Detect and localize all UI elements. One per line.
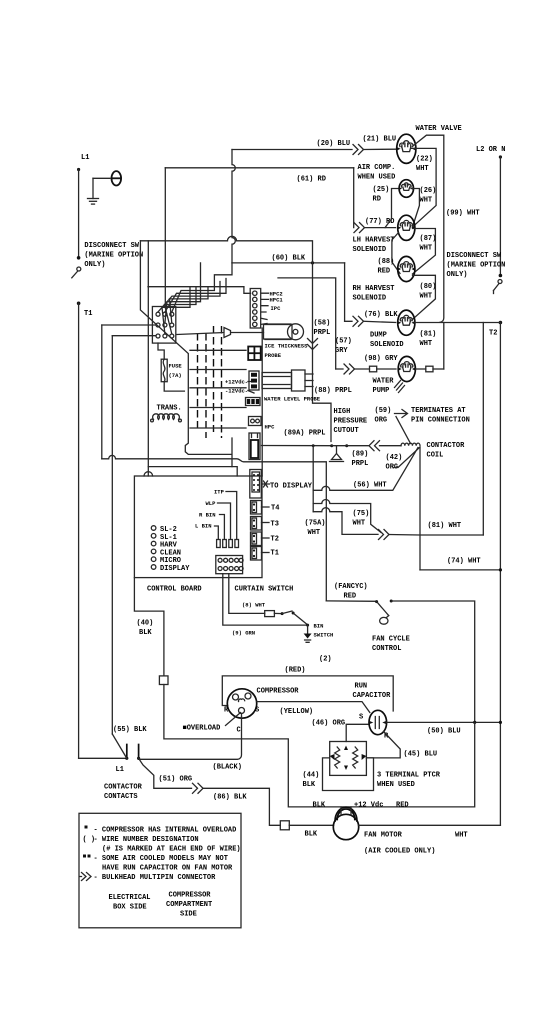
svg-text:- BULKHEAD MULTIPIN CONNECTOR: - BULKHEAD MULTIPIN CONNECTOR [94,874,217,882]
svg-text:WHT: WHT [420,197,433,205]
svg-text:WHT: WHT [420,340,433,348]
svg-text:L BIN: L BIN [195,523,212,530]
svg-text:(YELLOW): (YELLOW) [280,708,314,716]
svg-text:(MARINE OPTION: (MARINE OPTION [447,262,506,270]
svg-text:(80): (80) [420,283,437,291]
water level probe connector [249,371,259,390]
svg-text:L1: L1 [116,766,124,774]
svg-text:(8) WHT: (8) WHT [242,602,266,609]
svg-text:(9) GRN: (9) GRN [232,630,255,637]
bulkhead connector chevron (20)/(21) [353,145,364,155]
T2 connector [251,532,262,546]
svg-text:PRPL: PRPL [314,329,331,337]
legend box [79,813,241,928]
svg-text:WATER VALVE: WATER VALVE [416,125,462,133]
svg-text:WHEN USED: WHEN USED [377,781,415,789]
svg-text:WATER LEVEL PROBE: WATER LEVEL PROBE [264,396,321,403]
LED MICRO [151,557,156,562]
fan cycle control switch [375,600,378,603]
svg-text:SL-2: SL-2 [160,526,177,534]
svg-text:WHT: WHT [420,245,433,253]
svg-text:(# IS MARKED AT EACH END OF WI: (# IS MARKED AT EACH END OF WIRE) [102,846,241,854]
wire cutout to coil with chevron [347,441,401,451]
wire +12 Vdc fan motor leads [341,807,351,815]
LED HARV [151,541,156,546]
svg-text:COIL: COIL [427,452,444,460]
svg-text:CAPACITOR: CAPACITOR [353,692,392,700]
svg-text:(46) ORG: (46) ORG [312,720,346,728]
svg-text:(86) BLK: (86) BLK [213,794,247,802]
svg-text:(99) WHT: (99) WHT [446,210,480,218]
svg-text:(21) BLU: (21) BLU [363,136,397,144]
T1 connector [251,547,262,561]
svg-text:(88) PRPL: (88) PRPL [314,387,352,395]
svg-text:ONLY): ONLY) [84,261,105,269]
LED SL-2 [151,526,156,531]
rung wires across dashes [190,350,246,428]
box step to HPC strip [244,287,251,294]
water pump hatch marks [395,381,405,393]
svg-text:T2: T2 [489,330,497,338]
svg-text:- COMPRESSOR HAS INTERNAL OVER: - COMPRESSOR HAS INTERNAL OVERLOAD [94,827,237,835]
2x2 grid connector [248,347,261,361]
svg-text:(89): (89) [352,451,369,459]
svg-text:(50) BLU: (50) BLU [427,728,461,736]
svg-text:SL-1: SL-1 [160,534,177,542]
svg-text:WHT: WHT [420,293,433,301]
svg-text:(25): (25) [373,186,390,194]
svg-text:SIDE: SIDE [180,911,197,919]
svg-text:(42): (42) [386,454,403,462]
bin switch ground [307,625,309,633]
svg-text:DISCONNECT SW: DISCONNECT SW [447,252,502,260]
PTCR [330,742,367,776]
svg-text:(75): (75) [353,510,370,518]
svg-text:BLK: BLK [313,802,326,810]
svg-text:CURTAIN SWITCH: CURTAIN SWITCH [235,586,294,594]
wire vertical from (20)BLU down with hops [232,150,235,263]
4 small pin rects [217,540,221,548]
wire coil vertical [419,448,421,570]
svg-text:PIN CONNECTION: PIN CONNECTION [411,417,470,425]
svg-text:(61) RD: (61) RD [297,176,326,184]
10-pin connector [216,556,243,574]
wire L2 right rail upper [499,155,502,158]
svg-text:SOLENOID: SOLENOID [353,246,387,254]
svg-text:(44): (44) [303,772,320,780]
HPC bold connector [249,433,260,460]
svg-text:CLEAN: CLEAN [160,549,181,557]
svg-text:ICE THICKNESS: ICE THICKNESS [265,343,309,350]
svg-text:+12 Vdc: +12 Vdc [354,802,383,810]
svg-text:T2: T2 [271,536,279,544]
svg-text:(RED): (RED) [285,667,306,675]
svg-text:ONLY): ONLY) [447,271,468,279]
wire L1 left rail upper [77,168,80,171]
svg-text:RD: RD [373,196,381,204]
svg-text:CONTACTOR: CONTACTOR [427,442,466,450]
svg-text:WHT: WHT [416,165,429,173]
wire long horizontal y=458.8 [102,455,326,601]
svg-text:FAN MOTOR: FAN MOTOR [364,832,403,840]
bulkhead chevron (75)/(75A) [379,530,390,540]
water level probe body [262,373,292,389]
svg-text:■OVERLOAD: ■OVERLOAD [183,725,221,733]
TO DISPLAY connector [250,470,261,499]
svg-text:RED: RED [396,802,409,810]
svg-text:(75A): (75A) [305,520,326,528]
svg-text:CUTOUT: CUTOUT [334,427,359,435]
svg-text:IPC: IPC [271,305,282,312]
svg-text:HIGH: HIGH [334,408,351,416]
svg-text:S: S [255,707,259,715]
svg-text:HPC1: HPC1 [270,297,284,304]
svg-text:PRESSURE: PRESSURE [334,418,368,426]
wire (22) WHT chain [412,148,437,227]
compartment box [242,722,475,807]
svg-text:TRANS.: TRANS. [157,405,182,413]
svg-text:COMPRESSOR: COMPRESSOR [257,688,300,696]
svg-text:WHT: WHT [455,832,468,840]
svg-text:CONTROL BOARD: CONTROL BOARD [147,586,202,594]
svg-text:PRPL: PRPL [352,460,369,468]
svg-text:T1: T1 [271,550,279,558]
svg-text:(55) BLK: (55) BLK [113,726,147,734]
svg-text:(57): (57) [335,338,352,346]
svg-text:BOX SIDE: BOX SIDE [113,904,147,912]
connector square on (40) BLK [159,676,168,685]
svg-text:(MARINE OPTION: (MARINE OPTION [84,252,143,260]
svg-text:3 TERMINAL PTCR: 3 TERMINAL PTCR [377,772,441,780]
svg-text:WLP: WLP [206,500,217,507]
svg-text:SOLENOID: SOLENOID [370,341,404,349]
svg-text:HPC: HPC [265,424,276,431]
svg-text:RUN: RUN [355,683,368,691]
disconnect switch right [499,274,503,278]
connector block 9-pin J1 [152,307,175,344]
svg-text:(76) BLK: (76) BLK [364,311,398,319]
svg-text:(51) ORG: (51) ORG [159,776,193,784]
svg-text:(58): (58) [314,320,331,328]
svg-text:(81): (81) [420,331,437,339]
wire (55) BLK vertical [111,336,113,734]
svg-text:CONTACTS: CONTACTS [104,793,138,801]
receptacle plug symbol [93,177,110,179]
LED CLEAN [151,549,156,554]
svg-text:(74) WHT: (74) WHT [447,558,481,566]
disconnect switch left [77,256,81,260]
svg-text:- SOME AIR COOLED MODELS MAY N: - SOME AIR COOLED MODELS MAY NOT [94,855,228,863]
svg-text:CONTACTOR: CONTACTOR [104,784,143,792]
svg-text:BIN: BIN [314,623,324,630]
svg-text:(56) WHT: (56) WHT [353,482,387,490]
wire fan cycle to (50)BLU junction [391,601,475,722]
svg-text:DUMP: DUMP [370,332,387,340]
svg-text:RH HARVEST: RH HARVEST [353,285,395,293]
svg-text:WATER: WATER [373,378,395,386]
wire feeder vertical x=313.2 [312,444,315,447]
3-pin +-12V connector [246,398,261,406]
HPC strip connector [250,289,261,329]
svg-text:BLK: BLK [305,831,318,839]
svg-text:DISCONNECT SW: DISCONNECT SW [84,242,139,250]
svg-text:ITP: ITP [214,489,225,496]
svg-text:L2 OR N: L2 OR N [476,146,505,154]
svg-text:- WIRE NUMBER DESIGNATION: - WIRE NUMBER DESIGNATION [94,836,199,844]
svg-text:S: S [359,714,363,722]
svg-text:AIR COMP.: AIR COMP. [358,164,396,172]
svg-text:RED: RED [378,268,391,276]
dashed bulkhead lines [197,333,199,432]
svg-text:DISPLAY: DISPLAY [160,565,190,573]
svg-text:L1: L1 [81,154,89,162]
svg-text:TO DISPLAY: TO DISPLAY [270,483,313,491]
fuse F1 [158,343,164,359]
wire L1 left rail lower [78,303,80,758]
svg-text:ORG: ORG [375,417,388,425]
svg-text:TERMINATES AT: TERMINATES AT [411,407,466,415]
control board hop on top edge [144,472,153,476]
svg-text:BLK: BLK [303,781,316,789]
svg-text:(7A): (7A) [169,372,182,379]
svg-text:ELECTRICAL: ELECTRICAL [109,894,151,902]
svg-text:(26): (26) [420,187,437,195]
T4 connector [251,501,262,515]
svg-text:COMPRESSOR: COMPRESSOR [169,892,212,900]
svg-text:(81) WHT: (81) WHT [428,522,462,530]
svg-text:FUSE: FUSE [169,363,183,370]
wire pump to collector [416,368,426,370]
svg-text:CONTROL: CONTROL [372,645,401,653]
svg-text:WHT: WHT [353,520,366,528]
svg-text:HARV: HARV [160,542,178,550]
T3 connector [251,517,262,531]
connector square on fan wire [280,821,289,830]
nested bundle wires [172,263,232,312]
svg-text:(2): (2) [319,656,332,664]
svg-text:PUMP: PUMP [373,387,390,395]
svg-text:C: C [237,727,241,735]
solenoid air comp [399,180,414,198]
svg-text:T3: T3 [271,521,279,529]
HPC 2-pin connector [249,417,262,426]
svg-text:(BLACK): (BLACK) [213,764,242,772]
svg-text:MICRO: MICRO [160,557,181,565]
svg-text:SWITCH: SWITCH [314,632,334,639]
svg-text:WHEN USED: WHEN USED [358,174,396,182]
svg-text:(20) BLU: (20) BLU [317,140,351,148]
svg-text:PROBE: PROBE [265,352,282,359]
svg-text:SOLENOID: SOLENOID [353,295,387,303]
svg-text:FAN CYCLE: FAN CYCLE [372,636,410,644]
svg-text:(89A) PRPL: (89A) PRPL [284,430,326,438]
svg-text:COMPARTMENT: COMPARTMENT [166,901,212,909]
svg-text:BLK: BLK [139,629,152,637]
left box outline / wire [164,168,166,306]
svg-text:(22): (22) [416,156,433,164]
svg-text:-12Vdc-: -12Vdc- [225,388,248,395]
svg-text:HAVE RUN CAPACITOR ON FAN MOTO: HAVE RUN CAPACITOR ON FAN MOTOR [102,865,233,873]
LED SL-1 [151,534,156,539]
svg-text:(45) BLU: (45) BLU [404,751,438,759]
ground (power cord) [92,178,94,198]
LED DISPLAY [151,565,156,570]
wires into connector left [102,324,156,326]
svg-text:(60) BLK: (60) BLK [272,255,306,263]
svg-text:T1: T1 [84,310,92,318]
svg-text:R BIN: R BIN [199,512,216,519]
ice thickness probe [177,328,264,338]
svg-text:(AIR COOLED ONLY): (AIR COOLED ONLY) [364,848,435,856]
svg-text:LH HARVEST: LH HARVEST [353,237,395,245]
svg-text:+12Vdc-: +12Vdc- [225,379,248,386]
wire to control board vertical x=101.8 [101,325,103,459]
control board box [134,476,262,578]
svg-text:(98) GRY: (98) GRY [364,355,398,363]
wire top contour y=240.8 [140,236,312,263]
svg-text:(59): (59) [375,407,392,415]
svg-text:(FANCYC): (FANCYC) [334,583,368,591]
svg-text:(87): (87) [420,235,437,243]
svg-text:RED: RED [344,593,357,601]
svg-text:WHT: WHT [308,529,321,537]
svg-text:GRY: GRY [335,347,348,355]
wire L2 right rail lower [499,323,501,826]
svg-text:(40): (40) [137,620,154,628]
svg-text:T4: T4 [271,505,279,513]
